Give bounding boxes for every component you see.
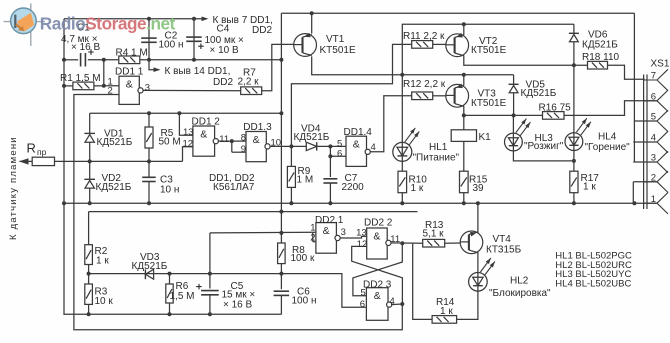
svg-text:&: & xyxy=(373,231,380,243)
svg-text:10 н: 10 н xyxy=(160,184,179,195)
svg-text:&: & xyxy=(374,290,381,302)
svg-text:6: 6 xyxy=(360,299,365,310)
svg-text:"Блокировка": "Блокировка" xyxy=(489,288,551,299)
svg-text:K1: K1 xyxy=(479,132,492,143)
svg-text:11: 11 xyxy=(390,234,400,245)
svg-text:HL4: HL4 xyxy=(598,132,617,143)
svg-text:7: 7 xyxy=(651,71,656,82)
svg-text:39: 39 xyxy=(473,183,485,194)
svg-text:5,1 к: 5,1 к xyxy=(423,229,445,240)
svg-text:4: 4 xyxy=(390,296,395,307)
svg-text:HL2: HL2 xyxy=(510,276,529,287)
svg-text:КД521Б: КД521Б xyxy=(96,182,132,193)
svg-text:DD1 1: DD1 1 xyxy=(115,67,144,78)
svg-text:1 к: 1 к xyxy=(96,256,109,267)
svg-text:5: 5 xyxy=(361,287,366,298)
svg-text:&: & xyxy=(253,134,260,146)
svg-text:9: 9 xyxy=(241,144,246,155)
svg-text:R18 110: R18 110 xyxy=(582,52,620,63)
svg-text:100 н: 100 н xyxy=(292,296,317,307)
svg-text:КД521Б: КД521Б xyxy=(97,137,133,148)
svg-text:КД521Б: КД521Б xyxy=(294,132,330,143)
svg-text:XS1: XS1 xyxy=(651,59,670,70)
svg-text:&: & xyxy=(353,139,360,151)
svg-text:&: & xyxy=(126,79,133,91)
svg-text:3: 3 xyxy=(651,153,656,164)
svg-text:1 к: 1 к xyxy=(411,183,424,194)
svg-text:DD1 2: DD1 2 xyxy=(192,117,221,128)
svg-text:RadioStorage.net: RadioStorage.net xyxy=(40,13,176,33)
svg-text:1,5 М: 1,5 М xyxy=(170,291,195,302)
svg-text:2: 2 xyxy=(108,86,113,97)
svg-text:13: 13 xyxy=(356,227,367,238)
svg-text:1 М: 1 М xyxy=(297,174,314,185)
svg-text:DD2: DD2 xyxy=(213,77,233,88)
svg-text:3: 3 xyxy=(145,82,150,93)
svg-text:11: 11 xyxy=(219,134,229,145)
svg-text:13: 13 xyxy=(183,127,194,138)
svg-text:2,2 к: 2,2 к xyxy=(238,77,260,88)
svg-text:100 к: 100 к xyxy=(291,253,315,264)
svg-text:1 к: 1 к xyxy=(583,182,596,193)
svg-text:"Розжиг": "Розжиг" xyxy=(524,141,564,152)
svg-text:10 к: 10 к xyxy=(95,296,114,307)
svg-text:8: 8 xyxy=(241,133,246,144)
svg-text:2200: 2200 xyxy=(342,182,365,193)
svg-text:К561ЛА7: К561ЛА7 xyxy=(213,182,255,193)
svg-text:КТ501Е: КТ501Е xyxy=(471,45,507,56)
svg-text:&: & xyxy=(200,129,207,141)
svg-text:× 10 В: × 10 В xyxy=(210,45,240,56)
svg-text:100 н: 100 н xyxy=(159,39,184,50)
svg-text:4: 4 xyxy=(371,142,376,153)
svg-text:R11 2,2 к: R11 2,2 к xyxy=(403,31,445,42)
svg-text:R4 1 M: R4 1 M xyxy=(116,47,148,58)
svg-text:1 к: 1 к xyxy=(440,306,453,317)
svg-text:12: 12 xyxy=(357,239,368,250)
svg-text:КТ315Б: КТ315Б xyxy=(486,244,522,255)
svg-text:KT501E: KT501E xyxy=(320,45,356,56)
svg-text:VT1: VT1 xyxy=(326,34,345,45)
svg-text:R16 75: R16 75 xyxy=(539,102,572,113)
svg-text:КД521Б: КД521Б xyxy=(521,88,557,99)
svg-text:1: 1 xyxy=(651,194,656,205)
svg-text:4: 4 xyxy=(651,133,656,144)
svg-text:DD2: DD2 xyxy=(252,25,272,36)
svg-text:6: 6 xyxy=(651,91,656,102)
svg-text:50 М: 50 М xyxy=(159,137,181,148)
svg-text:12: 12 xyxy=(183,138,194,149)
svg-text:DD2 2: DD2 2 xyxy=(364,218,393,229)
svg-text:"Горение": "Горение" xyxy=(585,142,631,153)
svg-text:пр: пр xyxy=(37,147,47,157)
svg-text:"Питание": "Питание" xyxy=(413,152,460,163)
svg-text:HL4 BL-L502UBC: HL4 BL-L502UBC xyxy=(555,278,631,289)
svg-text:КД521Б: КД521Б xyxy=(132,261,168,272)
svg-text:К выв 14 DD1,: К выв 14 DD1, xyxy=(165,66,231,77)
svg-text:3: 3 xyxy=(341,227,346,238)
svg-text:R: R xyxy=(27,141,36,156)
svg-text:6: 6 xyxy=(337,148,342,159)
svg-text:DD2 3: DD2 3 xyxy=(363,279,392,290)
svg-text:2: 2 xyxy=(310,232,315,243)
svg-text:5: 5 xyxy=(651,112,656,123)
svg-text:DD1.3: DD1.3 xyxy=(243,122,272,133)
svg-text:2: 2 xyxy=(651,172,656,183)
svg-text:DD1.4: DD1.4 xyxy=(344,127,373,138)
svg-text:&: & xyxy=(323,225,330,237)
svg-text:DD2.1: DD2.1 xyxy=(315,215,344,226)
svg-text:КД521Б: КД521Б xyxy=(582,40,618,51)
svg-text:× 16 В: × 16 В xyxy=(71,42,101,53)
svg-text:К датчику пламени: К датчику пламени xyxy=(8,136,19,240)
svg-text:10: 10 xyxy=(271,138,282,149)
svg-text:× 16 В: × 16 В xyxy=(223,300,253,311)
svg-text:КТ501Е: КТ501Е xyxy=(471,98,507,109)
svg-text:R12 2,2 к: R12 2,2 к xyxy=(403,79,446,90)
svg-text:R1 1,5 М: R1 1,5 М xyxy=(60,73,101,84)
